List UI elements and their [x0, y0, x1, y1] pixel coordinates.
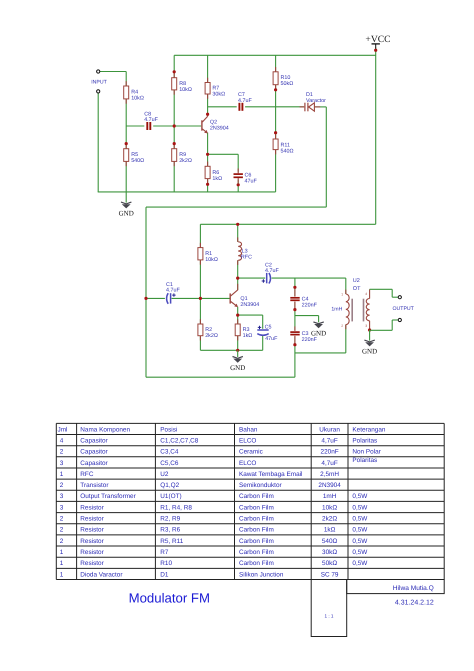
svg-text:R10: R10: [160, 560, 172, 567]
svg-text:Carbon Film: Carbon Film: [239, 560, 274, 567]
svg-text:1: 1: [60, 571, 64, 578]
wire: C8 line (R4/R5 node to C8 to R8/R9 node to Q2 base): [126, 125, 144, 127]
svg-text:2k2Ω: 2k2Ω: [179, 158, 192, 164]
svg-text:1kΩ: 1kΩ: [212, 176, 222, 182]
svg-text:47uF: 47uF: [245, 179, 258, 185]
wire: left feed down to C1 and outer bottom loop: [145, 207, 147, 377]
svg-text:1kΩ: 1kΩ: [243, 333, 253, 339]
junction dots on C8 line: [173, 124, 176, 127]
svg-text:Nama Komponen: Nama Komponen: [80, 426, 130, 433]
svg-text:4.7uF: 4.7uF: [238, 98, 252, 104]
scale box 1:1: [311, 580, 347, 637]
svg-text:Carbon Film: Carbon Film: [239, 516, 274, 523]
wire: R7 column / Q2 collector: [207, 55, 209, 82]
svg-text:Resistor: Resistor: [80, 538, 104, 545]
svg-text:220nF: 220nF: [321, 449, 339, 456]
wire: R10/R11 column: [275, 55, 277, 72]
svg-text:4.7uF: 4.7uF: [166, 288, 180, 294]
svg-text:ELCO: ELCO: [239, 460, 256, 467]
svg-text:2: 2: [60, 516, 64, 523]
svg-text:3: 3: [365, 324, 367, 328]
svg-text:3: 3: [60, 504, 64, 511]
wire: R2 bottom to lower ground rail: [199, 336, 201, 351]
svg-text:Ukuran: Ukuran: [319, 426, 340, 433]
svg-text:Capasitor: Capasitor: [80, 449, 108, 456]
transformer core: [351, 299, 353, 322]
wire: VCC right-edge rail down to lower stage: [375, 48, 377, 225]
resistor R2: [199, 319, 201, 324]
svg-text:ELCO: ELCO: [239, 437, 256, 444]
svg-text:4.7uF: 4.7uF: [265, 268, 279, 274]
svg-text:OUTPUT: OUTPUT: [393, 306, 415, 312]
svg-text:U1(OT): U1(OT): [160, 493, 181, 500]
svg-text:Output Transformer: Output Transformer: [80, 493, 136, 500]
svg-text:R1, R4, R8: R1, R4, R8: [160, 504, 192, 511]
capacitor C3: [294, 326, 296, 331]
svg-text:Dioda Varactor: Dioda Varactor: [80, 571, 123, 578]
svg-text:10kΩ: 10kΩ: [322, 504, 337, 511]
svg-text:Carbon Film: Carbon Film: [239, 538, 274, 545]
svg-text:Resistor: Resistor: [80, 527, 104, 534]
svg-text:3: 3: [60, 493, 64, 500]
svg-text:1: 1: [60, 549, 64, 556]
node: OUTPUT terminal 2: [398, 318, 401, 321]
svg-text:2,5mH: 2,5mH: [320, 471, 339, 478]
resistor R3: [237, 319, 239, 324]
wire: varactor output down and across to lower stage: [325, 107, 327, 207]
svg-text:Non Polar: Non Polar: [352, 449, 381, 456]
wire: upper ground rail: [98, 191, 276, 193]
svg-text:GND: GND: [119, 210, 134, 218]
svg-text:4.31.24.2.12: 4.31.24.2.12: [395, 599, 434, 606]
capacitor C2 electrolytic: [266, 273, 268, 283]
svg-text:2: 2: [341, 324, 343, 328]
ground: upper rail GND symbol: [125, 192, 127, 203]
svg-text:R7: R7: [160, 549, 169, 556]
wire: Q1 emitter node to R3 and C5: [237, 307, 239, 324]
svg-text:30kΩ: 30kΩ: [212, 92, 225, 98]
svg-text:Q2: Q2: [210, 119, 217, 125]
svg-text:10kΩ: 10kΩ: [179, 87, 192, 93]
node: INPUT terminal 2: [97, 90, 100, 93]
wire: secondary bottom to OUTPUT terminal 2: [368, 328, 371, 331]
svg-text:SC 79: SC 79: [321, 571, 339, 578]
svg-text:Modulator FM: Modulator FM: [129, 590, 210, 605]
svg-text:Kawat Tembaga Email: Kawat Tembaga Email: [239, 471, 302, 478]
svg-text:1mH: 1mH: [331, 306, 342, 312]
svg-text:47uF: 47uF: [265, 336, 278, 342]
svg-text:30kΩ: 30kΩ: [322, 549, 337, 556]
wire: C2 line from collector node to transformer: [238, 277, 266, 279]
svg-text:C5: C5: [265, 324, 272, 330]
svg-text:220nF: 220nF: [302, 302, 318, 308]
node: OUTPUT terminal 1: [398, 296, 401, 299]
svg-text:C3,C4: C3,C4: [160, 449, 179, 456]
svg-text:Posisi: Posisi: [160, 426, 177, 433]
svg-text:INPUT: INPUT: [91, 80, 107, 86]
svg-text:Capasitor: Capasitor: [80, 460, 108, 467]
wire: Q2 emitter node to R6 and C6: [207, 133, 209, 167]
svg-text:2: 2: [60, 449, 64, 456]
svg-text:1: 1: [60, 560, 64, 567]
svg-text:1mH: 1mH: [323, 493, 337, 500]
svg-text:U2: U2: [160, 471, 169, 478]
svg-text:U2: U2: [353, 278, 360, 284]
resistor R11: [275, 134, 277, 139]
svg-text:1: 1: [60, 471, 64, 478]
wire: R1 column to base line: [199, 224, 201, 247]
capacitor C5 electrolytic: [257, 329, 268, 331]
wire: C3 bottom across to transformer pin 2: [295, 352, 346, 354]
node: +VCC power terminal: [372, 43, 380, 45]
svg-text:3: 3: [60, 460, 64, 467]
svg-text:Resistor: Resistor: [80, 516, 104, 523]
svg-text:2: 2: [60, 482, 64, 489]
svg-text:C1,C2,C7,C8: C1,C2,C7,C8: [160, 437, 198, 444]
wire: secondary top to OUTPUT terminal 1: [370, 288, 393, 290]
svg-text:Jml: Jml: [58, 426, 68, 433]
svg-text:2N3904: 2N3904: [318, 482, 341, 489]
svg-text:Hilwa Mutia.Q: Hilwa Mutia.Q: [393, 585, 434, 592]
wire: R8 column: [173, 55, 175, 77]
svg-text:RFC: RFC: [241, 255, 252, 261]
svg-text:10kΩ: 10kΩ: [131, 96, 144, 102]
svg-text:0,5W: 0,5W: [352, 493, 368, 500]
svg-text:0,5W: 0,5W: [352, 527, 368, 534]
svg-text:Semikonduktor: Semikonduktor: [239, 482, 282, 489]
capacitor C1 electrolytic: [167, 293, 169, 304]
svg-text:2N3904: 2N3904: [240, 302, 259, 308]
svg-text:220nF: 220nF: [302, 337, 318, 343]
svg-text:RFC: RFC: [80, 471, 94, 478]
svg-text:4.7uF: 4.7uF: [144, 117, 158, 123]
svg-text:2k2Ω: 2k2Ω: [322, 516, 337, 523]
svg-text:4: 4: [60, 437, 64, 444]
capacitor C6: [237, 169, 239, 174]
svg-text:2: 2: [60, 527, 64, 534]
svg-text:Resistor: Resistor: [80, 504, 104, 511]
resistor R4: [125, 81, 127, 86]
wire: R9 bottom to ground rail: [173, 161, 175, 192]
svg-text:Carbon Film: Carbon Film: [239, 493, 274, 500]
wire: R5 column: [125, 126, 127, 149]
svg-text:C5,C6: C5,C6: [160, 460, 179, 467]
wire: C4/C3 column: [294, 278, 296, 296]
svg-text:1: 1: [341, 293, 343, 297]
svg-text:+VCC: +VCC: [365, 34, 390, 45]
wire: lower VCC rail: [200, 223, 375, 225]
svg-text:0,5W: 0,5W: [352, 549, 368, 556]
svg-text:Ceramic: Ceramic: [239, 449, 264, 456]
svg-text:Carbon Film: Carbon Film: [239, 504, 274, 511]
svg-text:Keterangan: Keterangan: [352, 426, 385, 433]
wire: C7 line from collector node to varactor: [208, 106, 237, 108]
svg-text:540Ω: 540Ω: [131, 158, 144, 164]
name box Hilwa Mutia.Q: [347, 580, 445, 594]
svg-text:L3: L3: [242, 248, 248, 254]
svg-text:Polaritas: Polaritas: [352, 457, 377, 464]
svg-text:Carbon Film: Carbon Film: [239, 549, 274, 556]
resistor R5: [125, 144, 127, 149]
wire: R6 and C6 bottoms to ground rail: [207, 179, 209, 192]
svg-text:1 : 1: 1 : 1: [325, 614, 334, 619]
svg-text:4,7uF: 4,7uF: [321, 437, 337, 444]
inductor L3 RFC: [237, 237, 239, 241]
wire: C4/C3 midpoint tap to GND: [295, 315, 319, 317]
ground: GND at R3 bottom: [236, 349, 239, 352]
transformer secondary coil: [366, 299, 369, 321]
resistor R6: [207, 162, 209, 167]
svg-text:Carbon Film: Carbon Film: [239, 527, 274, 534]
svg-text:D1: D1: [160, 571, 169, 578]
svg-text:Silikon Junction: Silikon Junction: [239, 571, 284, 578]
svg-text:2k2Ω: 2k2Ω: [205, 333, 218, 339]
svg-text:540Ω: 540Ω: [281, 148, 294, 154]
svg-text:50kΩ: 50kΩ: [281, 81, 294, 87]
svg-text:R2, R9: R2, R9: [160, 516, 180, 523]
svg-text:Q1,Q2: Q1,Q2: [160, 482, 179, 489]
svg-text:10kΩ: 10kΩ: [205, 257, 218, 263]
wire: top VCC rail: [174, 54, 376, 56]
svg-text:Bahan: Bahan: [239, 426, 258, 433]
svg-text:2: 2: [60, 538, 64, 545]
transistor Q2 2N3904: [201, 120, 203, 130]
capacitor C4: [294, 289, 296, 296]
svg-text:0,5W: 0,5W: [352, 560, 368, 567]
svg-text:GND: GND: [362, 348, 377, 356]
transistor Q1 2N3904: [237, 284, 239, 290]
wire: C1 base line: [146, 297, 165, 299]
svg-text:Q1: Q1: [240, 296, 247, 302]
svg-text:0,5W: 0,5W: [352, 504, 368, 511]
wire: RFC column / Q1 collector: [237, 224, 239, 242]
svg-text:OT: OT: [353, 286, 361, 292]
svg-text:50kΩ: 50kΩ: [322, 560, 337, 567]
svg-text:R3, R6: R3, R6: [160, 527, 180, 534]
svg-text:0,5W: 0,5W: [352, 516, 368, 523]
resistor R7: [207, 78, 209, 83]
svg-text:GND: GND: [230, 364, 245, 372]
svg-text:540Ω: 540Ω: [322, 538, 338, 545]
svg-text:0,5W: 0,5W: [352, 538, 368, 545]
svg-text:Capasitor: Capasitor: [80, 437, 108, 444]
wire: input terminal 1 to R4 top: [100, 71, 126, 73]
svg-text:4,7uF: 4,7uF: [321, 460, 337, 467]
svg-text:Varactor: Varactor: [306, 98, 326, 104]
svg-text:1kΩ: 1kΩ: [324, 527, 336, 534]
capacitor C8: [146, 122, 148, 130]
ground: GND at C4/C3 tap: [313, 322, 323, 324]
svg-text:Resistor: Resistor: [80, 549, 104, 556]
svg-text:4: 4: [365, 292, 367, 296]
resistor R9: [173, 144, 175, 149]
node: INPUT terminal 1: [97, 70, 100, 73]
wire: R4 bottom to C8 node line: [125, 99, 127, 126]
resistor R10: [275, 67, 277, 72]
svg-text:Resistor: Resistor: [80, 560, 104, 567]
capacitor C7: [238, 103, 240, 111]
ground: GND under transformer secondary: [369, 330, 371, 341]
svg-text:Polaritas: Polaritas: [352, 437, 377, 444]
resistor R8: [173, 73, 175, 78]
wire: R3 / C5 bottoms and lower ground rail: [237, 336, 239, 351]
wire: input terminal 2 down to ground rail: [97, 93, 99, 192]
resistor R1: [199, 243, 201, 248]
diode D1 varactor: [300, 106, 305, 108]
component table: [56, 422, 444, 424]
transformer primary coil: [345, 290, 347, 294]
svg-text:Transistor: Transistor: [80, 482, 109, 489]
svg-text:2N3904: 2N3904: [210, 126, 229, 132]
svg-text:R5, R11: R5, R11: [160, 538, 183, 545]
